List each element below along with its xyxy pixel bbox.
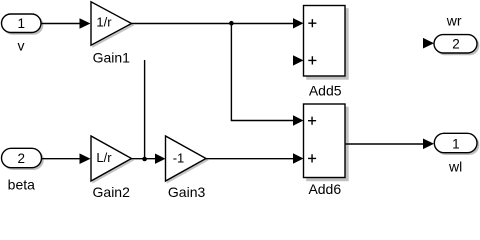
outport 1 (wl) bbox=[434, 133, 479, 154]
svg-text:-1: -1 bbox=[173, 150, 185, 165]
svg-text:v: v bbox=[18, 37, 25, 53]
inport 1 (v) bbox=[2, 14, 43, 34]
arrowhead into Add5 input 1 bbox=[293, 18, 304, 28]
arrowhead into outport wl bbox=[423, 139, 434, 150]
gain Gain1 (1/r) bbox=[91, 2, 133, 47]
svg-text:1: 1 bbox=[18, 16, 26, 31]
junction node on Gain2 output bbox=[142, 157, 147, 162]
gain Gain2 (L/r) bbox=[91, 136, 133, 183]
wire Add6 output to outport wl bbox=[346, 143, 424, 145]
arrowhead into Gain1 bbox=[80, 18, 91, 29]
svg-text:2: 2 bbox=[17, 151, 25, 166]
gain Gain3 (-1) bbox=[166, 136, 208, 183]
arrowhead into Gain2 bbox=[80, 153, 91, 164]
svg-text:Gain3: Gain3 bbox=[168, 184, 206, 200]
svg-text:Gain2: Gain2 bbox=[93, 184, 131, 200]
arrowhead into Add6 input 1 bbox=[293, 115, 304, 125]
inport 2 (beta) bbox=[2, 148, 44, 169]
wire inport2 to Gain2 bbox=[42, 158, 81, 160]
sum Add5 bbox=[304, 6, 349, 80]
wire Gain3 to Add6 input 2 bbox=[206, 158, 294, 160]
wire Gain2 to Gain3 bbox=[132, 158, 156, 160]
svg-text:Add5: Add5 bbox=[309, 82, 342, 98]
svg-text:Add6: Add6 bbox=[308, 181, 341, 197]
wire inport1 to Gain1 bbox=[41, 23, 81, 25]
arrowhead into Gain3 bbox=[155, 154, 166, 164]
svg-text:1/r: 1/r bbox=[96, 15, 112, 30]
outport 2 (wr) bbox=[434, 35, 479, 55]
svg-text:wr: wr bbox=[446, 13, 462, 29]
svg-text:2: 2 bbox=[452, 37, 460, 52]
svg-text:beta: beta bbox=[8, 177, 35, 193]
wire Gain1 to Add5 input 1 bbox=[132, 23, 295, 25]
dangling arrowhead at Add5 input 2 bbox=[293, 55, 304, 65]
svg-text:wl: wl bbox=[448, 159, 462, 175]
sum Add6 bbox=[304, 104, 349, 181]
wire junction down to Add6 input 1 bbox=[231, 24, 293, 121]
svg-text:L/r: L/r bbox=[96, 150, 112, 165]
svg-text:1: 1 bbox=[452, 136, 460, 151]
dangling wire up from junction bbox=[144, 60, 146, 159]
junction node on Gain1 output bbox=[229, 21, 234, 26]
svg-text:Gain1: Gain1 bbox=[93, 50, 131, 66]
dangling arrowhead at outport wr bbox=[423, 38, 434, 49]
arrowhead into Add6 input 2 bbox=[293, 153, 304, 163]
